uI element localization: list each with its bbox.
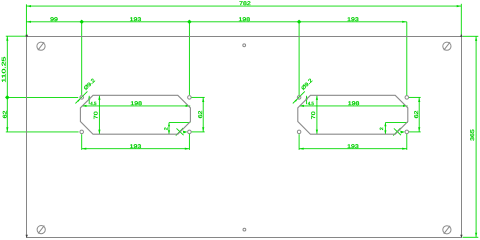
dimension 198 left cutout arrow left	[82, 105, 87, 107]
chamfer dim arrow bottom right cutout	[384, 130, 386, 134]
dimension 782 arrow right	[457, 5, 462, 7]
dimension 70 right line	[316, 95, 318, 134]
svg-text:62: 62	[414, 111, 420, 119]
small hole top-center	[243, 44, 246, 47]
dimension 62 left cutout line	[202, 97, 204, 131]
dimension 110.25 line	[6, 36, 8, 97]
plate corner marker bottom-left	[26, 235, 28, 238]
dimension 193 right ext line left	[298, 134, 300, 150]
dimension 193 left arrow left	[82, 148, 87, 150]
svg-text:198: 198	[348, 101, 360, 107]
svg-text:193: 193	[130, 144, 142, 150]
dimension row tick at 299.1	[297, 20, 302, 24]
plate corner marker top-left	[26, 35, 28, 37]
extension line hole row bottom left	[6, 131, 79, 133]
extension line from row to right cutout hole B1	[298, 22, 300, 96]
dimension 782 extension line right	[460, 4, 462, 36]
corner hole bottom-right	[443, 226, 451, 234]
chamfer leader arrow left cutout	[183, 131, 188, 134]
chamfer leader cross left cutout	[176, 128, 183, 136]
dimension 782 arrow left	[26, 5, 31, 7]
dimension 365 arrow top	[475, 36, 477, 41]
dimension 198 right cutout arrow right	[403, 105, 408, 107]
extension line hole row top left	[6, 96, 78, 98]
svg-text:99: 99	[50, 17, 58, 23]
left cutout hole bottom-left	[80, 130, 84, 134]
dimension 198 right cutout line	[299, 105, 407, 107]
dimension 4.5 left arrow	[88, 96, 90, 100]
left cutout octagon	[80, 95, 190, 134]
chamfer leader arrow right cutout	[400, 131, 405, 134]
dimension 62 left cutout arrow bottom	[202, 127, 204, 132]
leader diameter 9.2 right cutout	[293, 91, 305, 103]
chamfer dim arrow bottom left cutout	[168, 130, 170, 134]
dimension 62 right cutout arrow top	[418, 97, 420, 102]
corner hole top-left	[37, 42, 45, 50]
chamfer dim ext left cutout	[169, 122, 190, 124]
dimension 70 left arrow bottom	[98, 130, 100, 135]
dimension 4.5 right line	[306, 96, 308, 104]
svg-text:198: 198	[239, 17, 251, 23]
plate corner marker bottom-right	[460, 235, 462, 238]
dimension 62 right cutout ext top	[409, 96, 421, 98]
extension line from row to right cutout hole B2	[406, 22, 408, 96]
dimension 365 line	[475, 36, 477, 237]
svg-text:198: 198	[130, 101, 142, 107]
left cutout hole bottom-right	[188, 130, 192, 134]
dimension 62 left arrow bottom	[6, 127, 8, 132]
chamfer dim arrow top right cutout	[384, 123, 386, 127]
dimension row tick at 189.4	[187, 20, 192, 24]
chamfer dim line right cutout	[384, 123, 386, 135]
dimension 198 left cutout line	[82, 105, 190, 107]
dimension 193 left ext line right	[188, 134, 190, 150]
plate corner marker top-right	[460, 34, 462, 37]
dimension 62 left line	[6, 97, 8, 131]
dimension 110.25 arrow top	[6, 36, 8, 41]
svg-text:782: 782	[239, 1, 251, 7]
right cutout hole bottom-right	[405, 130, 409, 134]
svg-text:2: 2	[379, 127, 384, 131]
dimension 62 left cutout arrow top	[202, 97, 204, 102]
dimension 193 right line	[299, 148, 407, 150]
dimension 782 line	[26, 5, 461, 7]
chamfer leader cross right cutout	[393, 128, 400, 136]
dimension 193 left arrow right	[185, 148, 190, 150]
svg-text:193: 193	[347, 17, 359, 23]
dimension 70 left arrow top	[98, 95, 100, 100]
dimension 193 right arrow right	[402, 148, 407, 150]
svg-text:2: 2	[164, 127, 169, 131]
dimension row tick at 81.7	[79, 20, 84, 24]
dimension 62 left cutout ext bottom	[192, 131, 205, 133]
dimension 193 left ext line left	[81, 134, 83, 150]
dimension 4.5 left line	[88, 96, 90, 104]
extension line from row to left cutout hole A2	[188, 22, 190, 95]
dimension 198 right cutout arrow left	[299, 105, 304, 107]
dimension 365 arrow bottom	[475, 233, 477, 238]
leader diameter 9.2 left cutout	[75, 91, 87, 103]
svg-text:Ø9.2: Ø9.2	[83, 78, 97, 92]
right cutout hole top-right	[405, 96, 409, 100]
svg-text:62: 62	[3, 111, 9, 119]
dimension row arrow right	[402, 21, 407, 23]
dimension row 99/193/198/193 line	[26, 21, 406, 23]
dimension 193 right ext line right	[406, 134, 408, 150]
dimension 62 right cutout line	[418, 97, 420, 131]
svg-text:110.25: 110.25	[1, 57, 7, 83]
dimension 110.25 extension line top	[6, 35, 27, 37]
small hole bottom-center	[243, 228, 246, 231]
dimension 782 extension line left	[25, 4, 27, 36]
dimension 193 right arrow left	[299, 148, 304, 150]
svg-text:4.5: 4.5	[90, 101, 97, 106]
extension line from row to left cutout hole A1	[81, 22, 83, 95]
dimension 193 left line	[82, 148, 190, 150]
dimension 70 right arrow top	[316, 95, 318, 100]
chamfer dim arrow top left cutout	[168, 123, 170, 127]
svg-text:193: 193	[347, 144, 359, 150]
chamfer dim ext right cutout	[385, 122, 407, 124]
dimension 110.25 tick mid	[5, 95, 10, 100]
corner hole top-right	[443, 42, 451, 50]
dimension row arrow left	[26, 21, 31, 23]
svg-text:4.5: 4.5	[308, 101, 315, 106]
dimension 62 left cutout ext top	[192, 96, 205, 98]
svg-text:193: 193	[130, 17, 142, 23]
dimension 365 extension line bottom	[463, 236, 479, 238]
corner hole bottom-left	[37, 226, 45, 234]
right cutout hole bottom-left	[297, 130, 301, 134]
chamfer dim line left cutout	[168, 123, 170, 135]
svg-text:70: 70	[93, 111, 99, 119]
right cutout octagon	[298, 95, 408, 134]
dimension 62 right cutout ext bottom	[409, 131, 421, 133]
dimension 4.5 right arrow	[306, 96, 308, 100]
dimension 198 left cutout arrow right	[186, 105, 191, 107]
svg-text:62: 62	[198, 111, 204, 119]
svg-text:Ø9.2: Ø9.2	[300, 78, 314, 92]
left cutout hole top-right	[188, 96, 192, 100]
dimension 70 right arrow bottom	[316, 130, 318, 135]
dimension 365 extension line top	[463, 35, 479, 37]
dimension 70 left line	[98, 95, 100, 134]
svg-text:70: 70	[311, 111, 317, 119]
left cutout hole top-left	[80, 96, 84, 100]
plate outline	[27, 37, 462, 238]
dimension 62 right cutout arrow bottom	[418, 127, 420, 132]
right cutout hole top-left	[297, 96, 301, 100]
svg-text:365: 365	[470, 129, 476, 141]
